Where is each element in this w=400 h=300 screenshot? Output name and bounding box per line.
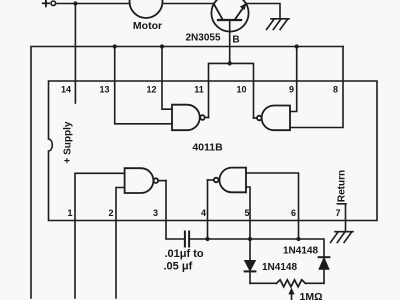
wire pin6 input [246,173,299,239]
wire pin8 riser [290,47,343,128]
wire pin3 output to capacitor [166,181,184,239]
node pin13 junction [113,44,117,48]
svg-text:B: B [232,35,239,46]
svg-text:.05 μf: .05 μf [164,261,193,273]
potentiometer R1 1M [250,280,324,300]
wire pins 10-11 tie to base [209,63,254,118]
IC U1 4011B outline [49,81,378,221]
top bus wire (set inputs rail) [31,47,343,299]
diode D1 1N4148 [245,261,256,284]
svg-text:2N3055: 2N3055 [185,33,220,44]
svg-text:12: 12 [146,85,156,95]
svg-text:1MΩ: 1MΩ [300,291,323,300]
svg-text:1N4148: 1N4148 [262,262,297,273]
node pin5 junction [248,237,252,241]
svg-text:Return: Return [337,170,348,202]
node junction at V+ [73,1,77,5]
ground (pin 7 return, chassis) [331,232,354,243]
wire pin1 input [75,173,125,298]
svg-text:4011B: 4011B [192,142,223,154]
node pin4 junction [205,237,209,241]
wire emitter to ground [246,4,280,19]
wire base down to gates node [229,21,231,64]
wire pin4 output down [207,180,209,239]
svg-text:6: 6 [291,208,296,218]
wire pin13 riser [115,47,172,124]
battery + terminal [43,0,56,6]
svg-text:8: 8 [333,85,338,95]
wire timing bus [191,239,325,257]
nand gate U1b pins 5,6 out 4 [208,168,247,193]
motor M1 [130,0,163,32]
svg-text:9: 9 [289,85,294,95]
svg-text:4: 4 [201,208,206,218]
svg-text:.01μf to: .01μf to [165,248,204,260]
svg-text:10: 10 [236,85,246,95]
svg-text:11: 11 [194,85,204,95]
ground (emitter, chassis) [267,19,290,30]
wire + terminal to motor [56,3,130,5]
nand gate U1c pins 8,9 out 10 [254,106,291,131]
svg-text:Motor: Motor [133,20,162,32]
svg-text:2: 2 [108,208,113,218]
node pin9 junction [295,44,299,48]
svg-text:+ Supply: + Supply [63,121,74,163]
wire motor to transistor collector [162,3,214,5]
wire pin12 riser [162,47,172,110]
wire pin5 input [246,187,250,261]
wire pin7 to ground [337,204,346,232]
transistor Q1 2N3055 [185,0,248,43]
wire pin2 input [116,188,125,299]
svg-text:7: 7 [335,208,340,218]
wire V+ down to pin 14 [74,4,76,104]
node pin6 junction [296,237,300,241]
wire pin9 riser [290,47,297,112]
capacitor C1 [185,232,189,247]
svg-text:13: 13 [99,85,109,95]
node pin12 junction [160,44,164,48]
node base junction [228,61,232,65]
svg-text:1: 1 [67,208,72,218]
diode D2 1N4148 [319,257,330,283]
nand gate U1d pins 12,13 out 11 [172,105,209,131]
svg-text:14: 14 [61,85,71,95]
svg-text:1N4148: 1N4148 [283,246,318,257]
nand gate U1a pins 1,2 out 3 [125,168,166,193]
svg-text:3: 3 [153,208,158,218]
svg-text:5: 5 [244,208,249,218]
